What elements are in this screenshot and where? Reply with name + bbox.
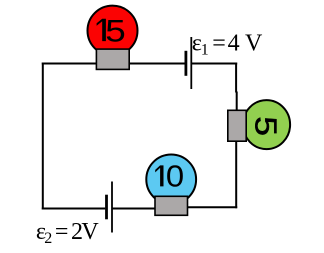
wire: top right horizontal (battery E1 positive plate to top right corner) bbox=[191, 63, 237, 65]
lamp L1 value label digit "1" bbox=[97, 19, 106, 41]
battery E2 negative plate (short thick) bbox=[105, 195, 108, 220]
svg-text:5: 5 bbox=[105, 14, 125, 49]
lamp L2 bulb globe (green, 5 W) bbox=[243, 100, 290, 149]
wire: right vertical upper second segment (junction down to lamp 5 base) bbox=[236, 92, 238, 113]
wire: right vertical lower (lamp 5 base down to bottom right corner) bbox=[235, 137, 237, 208]
svg-text:0: 0 bbox=[166, 160, 184, 193]
wire: left vertical bbox=[42, 63, 44, 210]
wire: right vertical upper (top corner down to junction) bbox=[235, 63, 237, 93]
wire: bottom mid horizontal (battery E2 positive plate to lamp 10 base) bbox=[112, 208, 165, 210]
lamp L2 base (grey socket) bbox=[228, 110, 246, 141]
battery E1 positive plate (long thin) bbox=[190, 37, 192, 89]
wire: top left horizontal (behind lamp 15 base, to battery E1 negative plate) bbox=[42, 63, 186, 65]
lamp L1 base (grey socket) bbox=[96, 49, 129, 69]
wire: bottom right horizontal (bottom corner to lamp 10 base) bbox=[170, 206, 237, 208]
lamp L3 value label digit "1" bbox=[155, 165, 163, 186]
lamp L3 base (grey socket) bbox=[155, 196, 188, 215]
lamp L3 bulb globe (blue, 10 W) bbox=[146, 155, 196, 205]
svg-text:5: 5 bbox=[248, 116, 282, 136]
battery E1 negative plate (short thick) bbox=[184, 51, 187, 76]
wire: bottom left horizontal (left corner to battery E2 negative plate) bbox=[42, 208, 106, 210]
battery E2 positive plate (long thin) bbox=[111, 182, 113, 233]
lamp L1 bulb globe (red, 15 W) bbox=[88, 6, 138, 56]
